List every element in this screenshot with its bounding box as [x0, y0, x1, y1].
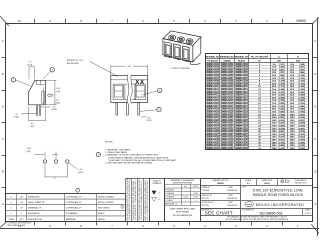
svg-text:[5.906]: [5.906] — [279, 145, 286, 147]
svg-text:160.0: 160.0 — [290, 148, 296, 150]
svg-text:2 PLACES: 2 PLACES — [165, 196, 175, 199]
svg-text:SYMBOLS: SYMBOLS — [152, 183, 162, 185]
svg-text:COPPER ALLOY: COPPER ALLOY — [66, 195, 83, 198]
svg-text:[3.937]: [3.937] — [279, 117, 286, 119]
svg-text:[6.299]: [6.299] — [299, 148, 306, 150]
svg-text:SHEET SIZE: SHEET SIZE — [262, 180, 273, 182]
svg-text:SINGLE ROW FIXED BLOCK: SINGLE ROW FIXED BLOCK — [253, 193, 304, 197]
svg-text:COPPER ALLOY: COPPER ALLOY — [66, 201, 83, 204]
svg-text:[.197]: [.197] — [27, 65, 32, 67]
svg-text:INCH: INCH — [264, 183, 270, 185]
svg-text:[.984]: [.984] — [279, 74, 284, 77]
svg-text:105.0: 105.0 — [290, 117, 296, 119]
svg-text:FINISH: FINISH — [98, 219, 105, 221]
svg-text:3 CIRCUIT SHOWN: 3 CIRCUIT SHOWN — [171, 68, 190, 70]
svg-text:[.032]: [.032] — [146, 120, 151, 122]
svg-text:135.0: 135.0 — [290, 134, 296, 136]
svg-text:[4.921]: [4.921] — [299, 127, 306, 130]
svg-text:[.197]: [.197] — [26, 151, 31, 153]
svg-text:[6.102]: [6.102] — [279, 148, 286, 150]
svg-text:MATERIAL NO.: MATERIAL NO. — [220, 55, 235, 58]
svg-text:INSULATOR: INSULATOR — [28, 212, 40, 215]
svg-text:DRAFT WHERE APPLICABLE: DRAFT WHERE APPLICABLE — [170, 207, 197, 210]
svg-text:XX: XX — [135, 79, 145, 86]
svg-text:E: E — [314, 72, 316, 76]
svg-text:[5.709]: [5.709] — [279, 142, 286, 144]
svg-text:[.984]: [.984] — [299, 71, 304, 74]
svg-text:120.0: 120.0 — [290, 125, 296, 127]
svg-text:[3.740]: [3.740] — [279, 113, 286, 116]
svg-text:PROJECTION: PROJECTION — [295, 183, 307, 185]
svg-text:1 OF 1: 1 OF 1 — [305, 213, 312, 215]
svg-text:[4.528]: [4.528] — [299, 122, 306, 125]
svg-text:[2.953]: [2.953] — [299, 100, 306, 102]
svg-text:MATERIAL NO.: MATERIAL NO. — [234, 55, 249, 58]
svg-text:39890-0232: 39890-0232 — [235, 146, 248, 150]
svg-text:[4.134]: [4.134] — [279, 119, 286, 122]
svg-text:[3.346]: [3.346] — [299, 105, 306, 108]
svg-text:145.0: 145.0 — [272, 141, 278, 144]
svg-text:[1.969]: [1.969] — [279, 89, 286, 91]
svg-text:A: A — [2, 202, 4, 206]
svg-text:[2.362]: [2.362] — [279, 95, 286, 97]
svg-text:125.0: 125.0 — [290, 128, 296, 130]
svg-text:IMPRINT ID LOC.: IMPRINT ID LOC. — [67, 60, 84, 62]
svg-text:F: F — [315, 39, 317, 43]
svg-text:SCREW, M3: SCREW, M3 — [28, 196, 41, 198]
svg-text:[2.362]: [2.362] — [299, 92, 306, 94]
svg-text:MOLEX INCORPORATED: MOLEX INCORPORATED — [256, 203, 305, 207]
svg-text:BLACK: BLACK — [98, 212, 105, 215]
svg-text:[2.165]: [2.165] — [299, 89, 306, 91]
svg-text:ANGULAR ± 3°: ANGULAR ± 3° — [165, 203, 178, 206]
svg-text:CHK S.TANAKA APPR T.YOSHIDA 20: CHK S.TANAKA APPR T.YOSHIDA 2016/01/26 R… — [128, 178, 131, 220]
svg-text:ST/TVS: ST/TVS — [202, 205, 210, 207]
svg-text:NICKEL PLATED: NICKEL PLATED — [98, 195, 114, 198]
svg-text:NOTES:: NOTES: — [105, 141, 113, 143]
svg-text:CHECKED BY: CHECKED BY — [202, 195, 213, 197]
svg-text:CHK T.YOSHIDA APPR K.MORI 2010: CHK T.YOSHIDA APPR K.MORI 2010/02/17 REV… — [146, 180, 149, 220]
svg-text:±.010: ±.010 — [193, 197, 198, 199]
svg-text:B: B — [314, 170, 316, 174]
svg-text:[.787]: [.787] — [299, 69, 304, 71]
svg-text:[1.378]: [1.378] — [299, 78, 306, 80]
svg-text:C: C — [2, 137, 4, 141]
svg-text:[4.134]: [4.134] — [299, 116, 306, 119]
svg-text:1 PLACE: 1 PLACE — [165, 199, 173, 202]
svg-text:130.0: 130.0 — [272, 134, 278, 136]
svg-text:[4.921]: [4.921] — [279, 130, 286, 133]
svg-text:[.591]: [.591] — [299, 67, 304, 69]
svg-text:[.020]: [.020] — [14, 117, 19, 119]
svg-text:150.0: 150.0 — [272, 145, 278, 147]
svg-text:C: C — [314, 137, 316, 141]
svg-text:ST/TVS: ST/TVS — [202, 198, 210, 200]
svg-text:[5.118]: [5.118] — [279, 134, 285, 136]
svg-text:[4.724]: [4.724] — [279, 127, 286, 130]
svg-text:SCALE: SCALE — [245, 179, 252, 182]
svg-text:100.0: 100.0 — [290, 114, 296, 116]
svg-text:DIM: DIM — [296, 61, 300, 63]
svg-text:THIRD ANGLE: THIRD ANGLE — [295, 179, 308, 182]
svg-text:[.138]: [.138] — [55, 103, 60, 105]
svg-text:[.591]: [.591] — [279, 69, 284, 71]
svg-text:100.0: 100.0 — [272, 117, 278, 119]
svg-text:DOCUMENT NO.: DOCUMENT NO. — [242, 210, 255, 212]
svg-text:SHEET: SHEET — [305, 210, 310, 212]
svg-text:MATERIAL: MATERIAL — [66, 218, 77, 221]
svg-text:molex: molex — [246, 204, 253, 206]
svg-text:105.0: 105.0 — [272, 120, 278, 122]
svg-text:[3.150]: [3.150] — [299, 103, 306, 105]
svg-text:[4.331]: [4.331] — [279, 122, 286, 125]
svg-text:F: F — [2, 39, 4, 43]
svg-text:DIMENSION STYLE: DIMENSION STYLE — [212, 180, 229, 182]
svg-text:10: 10 — [18, 19, 22, 23]
svg-text:COMPLIANT BY EXEMPTION. ALL OT: COMPLIANT BY EXEMPTION. ALL OTHERS ARE R… — [108, 159, 177, 162]
svg-text:150.0: 150.0 — [290, 142, 296, 144]
svg-text:39890-0432: 39890-0432 — [206, 146, 219, 150]
svg-text:[5.709]: [5.709] — [299, 140, 306, 142]
svg-text:[6.102]: [6.102] — [299, 145, 306, 147]
svg-text:A: A — [314, 202, 316, 206]
svg-text:TIN PLATED: TIN PLATED — [98, 207, 110, 210]
svg-text:[1.575]: [1.575] — [299, 81, 306, 83]
svg-text:CHK K.MORI APPR T.YOSHIDA 2014: CHK K.MORI APPR T.YOSHIDA 2014/06/03 REV… — [134, 179, 137, 220]
svg-text:[1.575]: [1.575] — [279, 83, 286, 85]
svg-text:COPPER ALLOY: COPPER ALLOY — [66, 207, 83, 210]
svg-text:[2.756]: [2.756] — [279, 100, 286, 102]
svg-text:D: D — [2, 105, 4, 109]
svg-text:39890-0332: 39890-0332 — [221, 146, 234, 150]
svg-text:WITHIN DIMENSIONS: WITHIN DIMENSIONS — [173, 215, 193, 217]
svg-text:B: B — [2, 170, 4, 174]
svg-text:[4.724]: [4.724] — [299, 124, 306, 127]
svg-text:DESCRIPTION: DESCRIPTION — [28, 219, 43, 221]
svg-text:TL/YSW: TL/YSW — [202, 190, 210, 192]
svg-text:130.0: 130.0 — [290, 131, 296, 133]
svg-text:[1.969]: [1.969] — [299, 86, 306, 88]
svg-text:[4.331]: [4.331] — [299, 119, 306, 122]
svg-text:140.0: 140.0 — [290, 136, 296, 139]
svg-text:[2.756]: [2.756] — [299, 97, 306, 99]
svg-text:[5.906]: [5.906] — [299, 142, 306, 144]
svg-text:MUST REMAIN: MUST REMAIN — [176, 211, 190, 214]
svg-text:1: 1 — [77, 190, 78, 192]
svg-text:135.0: 135.0 — [272, 137, 278, 139]
svg-text:3 PLACES: 3 PLACES — [165, 192, 175, 195]
svg-text:1. MATERIAL: SEE TABLE: 1. MATERIAL: SEE TABLE — [105, 149, 131, 152]
svg-text:[3.740]: [3.740] — [299, 110, 306, 113]
svg-text:[4.528]: [4.528] — [279, 124, 286, 127]
svg-text:[5.315]: [5.315] — [299, 134, 306, 136]
svg-text:[5.512]: [5.512] — [299, 137, 306, 139]
svg-text:[3.346]: [3.346] — [279, 108, 286, 111]
svg-text:AS SHOWN: AS SHOWN — [67, 62, 79, 65]
svg-text:[1.378]: [1.378] — [279, 81, 286, 83]
svg-text:[2.559]: [2.559] — [299, 95, 306, 97]
svg-text:[.043]: [.043] — [78, 172, 83, 174]
svg-text:[3.937]: [3.937] — [299, 114, 306, 116]
svg-text:mm: mm — [184, 186, 188, 188]
svg-text:±: ± — [195, 200, 196, 202]
svg-text:SEE CHART: SEE CHART — [205, 211, 233, 216]
svg-text:E: E — [2, 72, 4, 76]
svg-text:CAGE CLAMP 'W': CAGE CLAMP 'W' — [28, 201, 46, 204]
svg-text:[1.772]: [1.772] — [279, 86, 286, 88]
svg-text:QTY: QTY — [19, 219, 24, 221]
svg-text:[.197]: [.197] — [279, 64, 284, 66]
svg-text:4 PLACES: 4 PLACES — [165, 189, 175, 192]
svg-text:MATERIAL NO.: MATERIAL NO. — [205, 55, 220, 58]
svg-text:TITLE: TITLE — [242, 187, 246, 189]
svg-text:5.00/.197 EUROSTYLE LOW,: 5.00/.197 EUROSTYLE LOW, — [253, 188, 303, 192]
svg-text:CHK A.KATO APPR S.TANAKA 2012/: CHK A.KATO APPR S.TANAKA 2012/11/20 REV … — [140, 180, 143, 220]
svg-text:[.787]: [.787] — [279, 72, 284, 74]
svg-text:[1.181]: [1.181] — [279, 78, 286, 80]
svg-text:[.394]: [.394] — [299, 63, 304, 66]
svg-text:[3.543]: [3.543] — [299, 108, 306, 111]
svg-text:[3.543]: [3.543] — [279, 110, 286, 113]
svg-text:[5.512]: [5.512] — [279, 140, 286, 142]
svg-text:D: D — [314, 105, 316, 109]
svg-text:POLYAMIDE: POLYAMIDE — [66, 212, 78, 215]
svg-text:GENERAL TOLERANCES: GENERAL TOLERANCES — [171, 179, 195, 182]
svg-text:[.40]: [.40] — [56, 91, 60, 93]
svg-text:3. ASSEMBLY IS ROHS COMPLIANT: 3. ASSEMBLY IS ROHS COMPLIANT BY EXEMPTI… — [105, 154, 159, 157]
svg-text:DIM: DIM — [277, 61, 281, 63]
svg-text:[5.118]: [5.118] — [299, 131, 305, 133]
svg-text:COMPONENTS MARKED WITH AN ASTE: COMPONENTS MARKED WITH AN ASTERISK (*) A… — [108, 156, 169, 159]
svg-text:QUALITY: QUALITY — [153, 179, 162, 182]
svg-text:120.0: 120.0 — [272, 128, 278, 130]
svg-text:[.394]: [.394] — [279, 66, 284, 69]
svg-text:[.32]: [.32] — [30, 126, 34, 128]
svg-text:±.005: ±.005 — [193, 193, 198, 195]
svg-text:[2.165]: [2.165] — [279, 92, 286, 94]
svg-text:2016/01/26: 2016/01/26 — [227, 205, 238, 207]
svg-text:125.0: 125.0 — [272, 131, 278, 133]
svg-text:NICKEL PLATED: NICKEL PLATED — [98, 201, 114, 204]
svg-text:"A": "A" — [128, 65, 131, 68]
svg-text:2: 2 — [122, 207, 123, 209]
svg-text:ITEM: ITEM — [9, 219, 14, 221]
svg-text:[.039]: [.039] — [52, 109, 57, 111]
svg-text:155.0: 155.0 — [272, 148, 278, 150]
svg-text:2. FINISH: SEE TABLE: 2. FINISH: SEE TABLE — [105, 151, 128, 154]
svg-text:[2.559]: [2.559] — [279, 97, 286, 99]
svg-text:39890: 39890 — [296, 19, 306, 23]
svg-text:TERMINAL, PC: TERMINAL, PC — [28, 207, 43, 210]
svg-text:155.0: 155.0 — [290, 145, 296, 147]
svg-text:[1.181]: [1.181] — [299, 75, 306, 77]
svg-text:NO. OF CIRCUITS: NO. OF CIRCUITS — [251, 56, 269, 58]
svg-text:±: ± — [185, 200, 186, 202]
svg-text:145.0: 145.0 — [290, 139, 296, 142]
svg-text:140.0: 140.0 — [272, 139, 278, 142]
svg-text:MM/IN: MM/IN — [217, 183, 224, 185]
svg-text:±0.25: ±0.25 — [183, 197, 188, 199]
svg-text:[2.953]: [2.953] — [279, 103, 286, 105]
svg-text:[5.315]: [5.315] — [279, 137, 286, 139]
svg-text:4. REF DIMS ARE SHOWN IN BRACK: 4. REF DIMS ARE SHOWN IN BRACKETS [MM]. — [105, 162, 153, 165]
svg-text:INCH: INCH — [193, 186, 198, 188]
svg-text:[3.150]: [3.150] — [279, 106, 286, 108]
svg-text:[1.772]: [1.772] — [299, 83, 306, 85]
svg-text:SD-39890-003: SD-39890-003 — [260, 211, 283, 215]
svg-text:2016/01/26: 2016/01/26 — [227, 198, 238, 200]
svg-text:2016/01/26: 2016/01/26 — [227, 190, 238, 192]
